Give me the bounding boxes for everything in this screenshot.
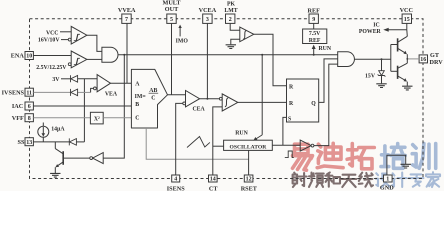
svg-text:S: S <box>288 116 291 122</box>
wire 3V line <box>61 78 70 80</box>
svg-text:POWER: POWER <box>359 29 382 35</box>
svg-text:VFF: VFF <box>12 115 24 122</box>
IMO arrow <box>179 27 181 37</box>
diode D1 (3V clamp) <box>71 75 78 82</box>
svg-text:ENA: ENA <box>11 53 25 60</box>
wire multiplier output to CEA + <box>168 94 186 96</box>
zener 15V <box>381 59 383 70</box>
AND gate A1 (enable) <box>102 47 118 62</box>
wire RUN line (A1 output across to A2) <box>118 54 338 56</box>
svg-text:16V/10V: 16V/10V <box>38 38 60 44</box>
gray return line mult bottom to RSET vertical <box>146 128 248 159</box>
svg-text:CEA: CEA <box>192 106 205 112</box>
op-amp VEA <box>97 75 110 92</box>
wire U2 output to AND gate A1 <box>87 58 102 60</box>
svg-text:Q: Q <box>311 101 316 107</box>
IC POWER arrow <box>388 29 407 31</box>
svg-text:IVSENS: IVSENS <box>2 89 25 96</box>
wire inverter output up to AND A2 <box>314 64 338 146</box>
svg-text:GND: GND <box>380 185 394 191</box>
watermark big characters <box>293 144 313 170</box>
ground (Q3) <box>50 173 60 177</box>
pin 16 GT DRV <box>419 55 427 63</box>
svg-text:14µA: 14µA <box>51 127 65 133</box>
wire ground input <box>231 39 240 44</box>
svg-text:GT: GT <box>430 52 440 59</box>
IC boundary dashed box <box>30 19 424 179</box>
svg-text:IMO: IMO <box>176 39 189 45</box>
svg-text:16: 16 <box>420 57 426 63</box>
svg-text:RUN: RUN <box>235 130 248 136</box>
inverter (clock) <box>300 140 311 151</box>
svg-text:8: 8 <box>28 116 31 122</box>
wire VCC to comparator <box>60 31 71 33</box>
wire U1 output to AND gate A1 <box>87 35 102 51</box>
svg-text:9: 9 <box>312 17 315 23</box>
svg-text:VEA: VEA <box>105 91 118 97</box>
pin 12 RSET <box>244 175 253 182</box>
sawtooth symbol <box>187 137 210 148</box>
wire pin7 VVEA down <box>126 24 128 84</box>
watermark small characters <box>293 173 307 187</box>
svg-text:RSET: RSET <box>241 185 258 191</box>
svg-text:14: 14 <box>210 177 216 183</box>
wire VEA output to multiplier A <box>111 82 132 84</box>
wire PKLMT output to latch R1 <box>254 34 287 85</box>
block OSCILLATOR <box>224 140 273 150</box>
svg-text:PK: PK <box>227 1 236 7</box>
pin 4 ISENS <box>172 175 180 182</box>
transistor Q2 (bottom driver) <box>397 66 399 79</box>
svg-text:VCEA: VCEA <box>199 7 217 14</box>
wire squarer to multiplier C <box>103 117 131 119</box>
wire oscillator clock to S and inverter <box>272 144 300 146</box>
op-amp CEA <box>186 91 200 107</box>
svg-text:6: 6 <box>28 104 31 110</box>
wire A2 output to driver bases <box>355 58 391 60</box>
svg-text:REF: REF <box>309 38 321 44</box>
svg-text:IC: IC <box>373 23 379 29</box>
svg-text:2: 2 <box>229 17 232 23</box>
current source 14uA <box>42 123 44 127</box>
svg-text:VCC: VCC <box>46 30 59 36</box>
comparator U2 (ENA) <box>71 51 87 68</box>
wire SS line <box>33 141 69 143</box>
wire CT to oscillator <box>213 145 224 147</box>
svg-text:12: 12 <box>246 177 252 183</box>
svg-text:CT: CT <box>209 185 218 191</box>
wire GND pin to ground <box>387 155 406 175</box>
wire base to inverter <box>63 157 89 159</box>
svg-text:OSCILLATOR: OSCILLATOR <box>230 144 268 150</box>
wire VFF to squarer <box>33 117 90 119</box>
comparator PWM <box>222 94 238 111</box>
driver base vertical <box>390 45 392 72</box>
AND gate A2 (gate drive) <box>338 52 355 67</box>
clock pulse symbol <box>285 151 294 158</box>
svg-text:15: 15 <box>404 17 410 23</box>
RUN arrow into REF <box>313 49 315 55</box>
svg-text:7.5V: 7.5V <box>309 31 321 37</box>
wire IVSENS line <box>33 91 70 93</box>
svg-text:15V: 15V <box>365 74 376 80</box>
svg-text:11: 11 <box>26 90 32 96</box>
svg-text:5: 5 <box>170 17 173 23</box>
ground (GND pin) <box>401 164 411 168</box>
svg-text:7: 7 <box>125 17 128 23</box>
svg-text:DRV: DRV <box>430 59 444 66</box>
wire pin9 down <box>313 24 315 30</box>
wire CT pin up <box>213 107 222 175</box>
svg-text:2.5V/12.25V: 2.5V/12.25V <box>36 65 67 71</box>
svg-text:VVEA: VVEA <box>118 7 136 14</box>
wire output node to pin16 <box>407 58 419 60</box>
svg-text:3V: 3V <box>52 77 60 83</box>
svg-text:B: B <box>135 102 139 108</box>
wire VCC down to Q1 collector <box>406 24 408 30</box>
comparator U1 (VCC UVLO) <box>71 26 87 44</box>
latch (R R S Q) <box>287 79 319 122</box>
svg-text:VCC: VCC <box>400 7 413 14</box>
ground (Q2 emitter) <box>402 86 412 90</box>
block 7.5V REF <box>303 29 327 44</box>
wire Q output up to AND A2 <box>319 59 338 103</box>
comparator PKLMT <box>240 27 254 42</box>
svg-text:ISENS: ISENS <box>167 185 185 191</box>
transistor Q3 (SS discharge) <box>54 142 56 149</box>
wire step to VEA inverting input <box>91 88 94 92</box>
wire CEA output <box>200 98 220 100</box>
ground (zener) <box>376 84 386 88</box>
svg-text:IM=: IM= <box>135 94 146 100</box>
svg-text:LMT: LMT <box>224 8 237 14</box>
wire RSET down from oscillator <box>248 150 250 175</box>
svg-text:1: 1 <box>386 177 389 183</box>
node clamp vertical <box>83 79 85 142</box>
RUN arrow into oscillator <box>261 55 263 135</box>
wire ENA pin to comparator U2 <box>33 55 71 57</box>
wire IAC to multiplier B <box>33 105 131 107</box>
diode D2 (IVSENS) <box>71 89 78 96</box>
svg-text:4: 4 <box>174 177 177 183</box>
transistor Q1 (top driver) <box>397 38 399 51</box>
wire pin2 to comparator <box>230 24 240 31</box>
wire pin3 VCEA down <box>206 24 208 99</box>
svg-text:C: C <box>151 96 155 102</box>
svg-text:C: C <box>135 116 139 122</box>
svg-text:X²: X² <box>94 116 100 122</box>
wire PWM output to latch R2 <box>238 101 287 103</box>
pin 1 GND <box>384 175 393 182</box>
svg-text:10: 10 <box>26 54 32 60</box>
pin 14 CT <box>209 175 218 182</box>
svg-text:RUN: RUN <box>319 46 332 52</box>
svg-text:3: 3 <box>206 17 209 23</box>
wire ENABLE down to inverter <box>103 55 124 158</box>
diode D3 (SS clamp) <box>69 138 76 145</box>
wire pin5 MULT OUT down <box>171 24 173 95</box>
ground (PKLMT) <box>226 45 236 49</box>
svg-text:SS: SS <box>18 139 25 146</box>
svg-text:13: 13 <box>26 140 32 146</box>
wire ISENS up to CEA - <box>176 103 183 175</box>
multiplier block <box>131 69 167 128</box>
inverter (enable, SS) <box>90 157 93 160</box>
squarer X2 <box>90 112 103 124</box>
svg-text:OUT: OUT <box>165 6 179 13</box>
svg-text:IAC: IAC <box>12 103 23 110</box>
